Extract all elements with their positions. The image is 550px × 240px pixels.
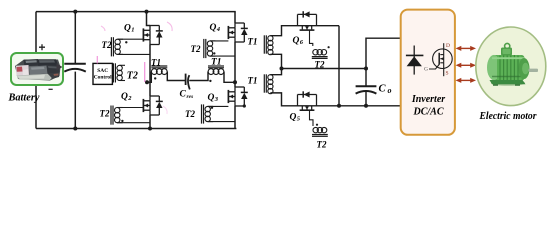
svg-text:G: G (424, 67, 428, 73)
wire Co column with output to inverter (366, 38, 401, 85)
wire left battery column (35, 12, 37, 129)
svg-text:5: 5 (297, 116, 301, 123)
svg-text:2: 2 (127, 95, 132, 102)
polarity dot T1 left (154, 77, 156, 79)
polarity dot T1 right (209, 80, 211, 82)
wire Q5 gate to T2 (310, 110, 314, 126)
svg-text:1: 1 (131, 27, 134, 34)
transformer T1 secondary bottom winding (264, 74, 273, 93)
transformer T2 winding at SAC (113, 63, 125, 82)
wire bottom rail (36, 128, 236, 130)
svg-text:Control: Control (94, 75, 112, 81)
node Q6 to bottom wire junction dot (337, 104, 341, 108)
wire Q1 drain jog to rail (147, 12, 151, 26)
svg-text:T2: T2 (315, 60, 325, 70)
svg-text:res: res (187, 94, 194, 100)
svg-text:T1: T1 (248, 37, 258, 47)
node Co top junction dot (364, 67, 368, 71)
svg-text:T1: T1 (248, 76, 258, 86)
node bottom-Q2 junction dot (148, 127, 152, 131)
svg-text:T2: T2 (191, 44, 201, 54)
polarity dot T2-Q6 (328, 46, 330, 48)
svg-text:Q: Q (293, 36, 300, 46)
transformer T2 winding at Q1 (111, 37, 123, 56)
arrow inverter to motor 2 (456, 63, 477, 68)
SAC control box (93, 63, 112, 84)
svg-text:Q: Q (210, 23, 217, 33)
svg-text:Q: Q (124, 24, 131, 34)
wire T2 bottom to Q2 source (117, 122, 150, 124)
wire center tap to Co column (282, 68, 367, 70)
wire T1 sec top to output top wire (270, 26, 339, 36)
wire T1 sec top inner to center tap (270, 54, 281, 68)
wire T2 bottom to Q3 source (208, 121, 235, 123)
svg-text:Electric motor: Electric motor (479, 110, 538, 122)
wire T1 right terminal to Cres (167, 72, 185, 81)
transformer T1 secondary top winding (264, 35, 273, 54)
battery - terminal label (49, 89, 53, 90)
battery photo (15, 59, 61, 81)
svg-text:Q: Q (208, 93, 215, 103)
svg-text:SAC: SAC (97, 68, 108, 74)
svg-text:3: 3 (214, 96, 219, 103)
svg-text:C: C (180, 90, 187, 100)
wire T1 left terminal to node A (147, 72, 151, 83)
wire dc-link capacitor column top (74, 12, 76, 63)
polarity dot T2-Q2 (121, 120, 123, 122)
transformer T2 winding at Q4 (204, 39, 216, 58)
svg-text:T2: T2 (317, 140, 327, 150)
battery image box (11, 53, 63, 85)
magenta artifact near Q2 diode (163, 106, 167, 114)
arrow inverter to motor 3 (456, 78, 477, 83)
svg-text:o: o (388, 86, 392, 95)
capacitor Cres (186, 74, 190, 90)
svg-text:T1: T1 (151, 58, 161, 68)
wire T2 bottom to Q4 source (210, 55, 235, 57)
wire Q4 drain from rail corner (234, 12, 236, 23)
node B junction dot (233, 80, 237, 84)
wire top rail (36, 11, 236, 13)
polarity dot T2-Q5 (316, 124, 318, 126)
transformer T2 winding at Q5 (312, 127, 328, 136)
magenta artifact above SAC box (96, 56, 98, 64)
svg-text:DC/AC: DC/AC (412, 107, 443, 118)
magenta artifact above T2 label (101, 26, 105, 31)
svg-text:S: S (446, 71, 449, 77)
polarity dot T2-Q1 (125, 41, 127, 43)
svg-text:T2: T2 (102, 40, 112, 50)
node bottom-capacitor junction dot (73, 127, 77, 131)
transistor Q1 (143, 26, 162, 45)
wire T2 to Q2 gate (117, 107, 143, 109)
node rail-capacitor junction dot (73, 10, 77, 14)
inverter DC/AC box (401, 10, 455, 135)
svg-text:C: C (379, 84, 387, 95)
wire T1 right winding to node B (224, 72, 235, 83)
wire T1 sec bottom to output bottom wire (270, 93, 401, 106)
transformer T1 primary right winding (208, 66, 224, 75)
transistor Q2 (143, 96, 162, 115)
node Q3 source-diode junction dot (243, 104, 246, 107)
transformer T1 primary left winding (151, 66, 167, 75)
capacitor dc-link plate (64, 64, 86, 72)
battery + terminal label (39, 44, 45, 50)
node center tap junction dot (280, 67, 284, 71)
wire T1 sec bottom inner to center tap (270, 69, 281, 75)
wire node A to Q2 drain (149, 82, 151, 96)
capacitor Co (356, 86, 377, 93)
svg-text:T2: T2 (185, 109, 195, 119)
diode in inverter (406, 46, 424, 75)
transformer T2 winding at Q6 (312, 50, 328, 59)
magenta artifact near node A (144, 62, 146, 82)
wire Q6 gate to T2 (310, 30, 313, 46)
mosfet in inverter (429, 43, 452, 76)
wire T2 bottom to Q1 source (118, 53, 150, 55)
transistor Q5 (298, 91, 317, 110)
wire Q2 source to bottom rail (149, 115, 151, 129)
wire Cres to T1 right winding (189, 72, 208, 81)
arrow inverter to motor 1 (456, 46, 477, 51)
wire Co bottom (365, 92, 367, 106)
svg-text:Q: Q (290, 113, 297, 123)
wire T2 to Q3 gate (208, 105, 229, 107)
transformer T2 winding at Q3 (202, 104, 214, 123)
wire Q4 source to node B (234, 42, 236, 87)
transistor Q6 (298, 11, 317, 30)
wire Q3 source to bottom rail (234, 106, 236, 129)
wire T2 to Q4 gate (210, 40, 228, 42)
node Co bottom junction dot (364, 104, 368, 108)
motor circle (476, 27, 546, 106)
svg-text:T1: T1 (211, 58, 222, 68)
node rail-Q1 junction dot (145, 10, 149, 14)
node A junction dot (145, 80, 149, 84)
wire Q1 source to node A (149, 45, 151, 83)
svg-text:T2: T2 (100, 109, 110, 119)
transistor Q4 (228, 23, 247, 42)
svg-text:T2: T2 (127, 71, 138, 82)
svg-text:Battery: Battery (8, 92, 40, 104)
svg-text:6: 6 (300, 39, 304, 46)
electric motor drawing (487, 43, 538, 85)
svg-text:4: 4 (216, 26, 221, 33)
wire dc-link capacitor column bottom (74, 72, 76, 129)
magenta artifact near Q1 diode (167, 22, 172, 31)
svg-text:Inverter: Inverter (411, 94, 445, 105)
svg-text:Q: Q (121, 92, 128, 102)
polarity dot T2-Q4 (213, 52, 215, 54)
polarity dot T2-Q3 (211, 107, 213, 109)
transformer T2 winding at Q2 (111, 106, 123, 125)
svg-text:D: D (446, 43, 450, 49)
wire T2 to Q1 gate (118, 38, 144, 40)
battery connector arrow (57, 64, 63, 71)
wire Q6 output down to bottom wire (338, 26, 340, 106)
transistor Q3 (228, 87, 247, 106)
